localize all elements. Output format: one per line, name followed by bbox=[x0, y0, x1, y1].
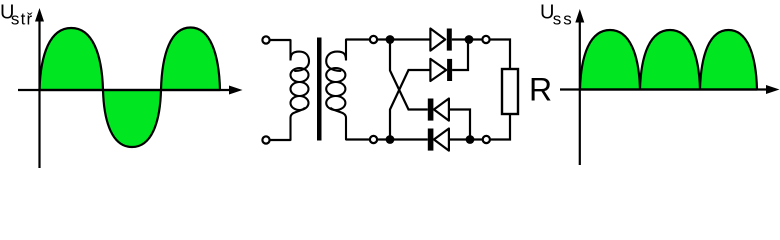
wire D3 anode down to negative node bbox=[449, 110, 470, 139]
right graph rectified wave (green) bbox=[580, 30, 757, 90]
resistor R body bbox=[502, 69, 518, 114]
diode D3 cathode bar bbox=[428, 99, 434, 121]
diode D1 cathode bar bbox=[447, 29, 452, 51]
diode D4 triangle bbox=[434, 129, 449, 151]
wire bottom primary terminal to winding bbox=[270, 139, 291, 141]
diode D3 triangle bbox=[434, 99, 449, 121]
wire D2 cathode up to positive node bbox=[452, 41, 468, 70]
junction dot top input node bbox=[386, 35, 395, 44]
right graph horizontal axis bbox=[560, 85, 780, 94]
label U_ss (DC voltage) bbox=[540, 2, 574, 29]
svg-text:R: R bbox=[529, 71, 552, 107]
wire top rail secondary to diode D1 bbox=[346, 38, 430, 40]
diode D1 triangle bbox=[430, 29, 445, 51]
junction dot positive output node bbox=[465, 35, 474, 44]
transformer T1 top primary terminal bbox=[262, 36, 269, 43]
diode D2 cathode bar bbox=[447, 59, 452, 81]
wire top primary terminal to winding bbox=[270, 39, 291, 41]
diode D4 cathode bar bbox=[428, 129, 434, 151]
right graph vertical axis bbox=[575, 9, 584, 165]
transformer T1 secondary winding bbox=[326, 40, 346, 140]
diode D2 triangle bbox=[430, 59, 446, 81]
svg-text:stř: stř bbox=[11, 10, 33, 29]
transformer T1 bottom primary terminal bbox=[262, 136, 269, 143]
label U_str (AC voltage) bbox=[0, 2, 33, 29]
wire crossing from bottom node to diode D2 bbox=[390, 70, 430, 137]
junction dot bottom input node bbox=[386, 135, 395, 144]
node terminal negative output (open circle) bbox=[483, 136, 490, 143]
node terminal top input (open circle) bbox=[370, 36, 377, 43]
wire D1 cathode to positive output bbox=[452, 40, 510, 70]
svg-text:ss: ss bbox=[553, 10, 574, 29]
left graph vertical axis bbox=[35, 8, 44, 168]
transformer T1 primary winding bbox=[291, 40, 310, 140]
transformer T1 core bbox=[317, 38, 322, 141]
node terminal positive output (open circle) bbox=[482, 36, 489, 43]
wire D4 anode to negative output bbox=[449, 114, 510, 140]
left graph horizontal axis bbox=[18, 86, 243, 95]
wire bottom rail secondary to diode D4 bbox=[346, 138, 428, 140]
node terminal bottom input (open circle) bbox=[370, 136, 377, 143]
wire crossing from top node to diode D3 bbox=[390, 42, 428, 110]
left graph AC sine wave (green) bbox=[40, 28, 221, 148]
junction dot negative output node bbox=[466, 135, 475, 144]
